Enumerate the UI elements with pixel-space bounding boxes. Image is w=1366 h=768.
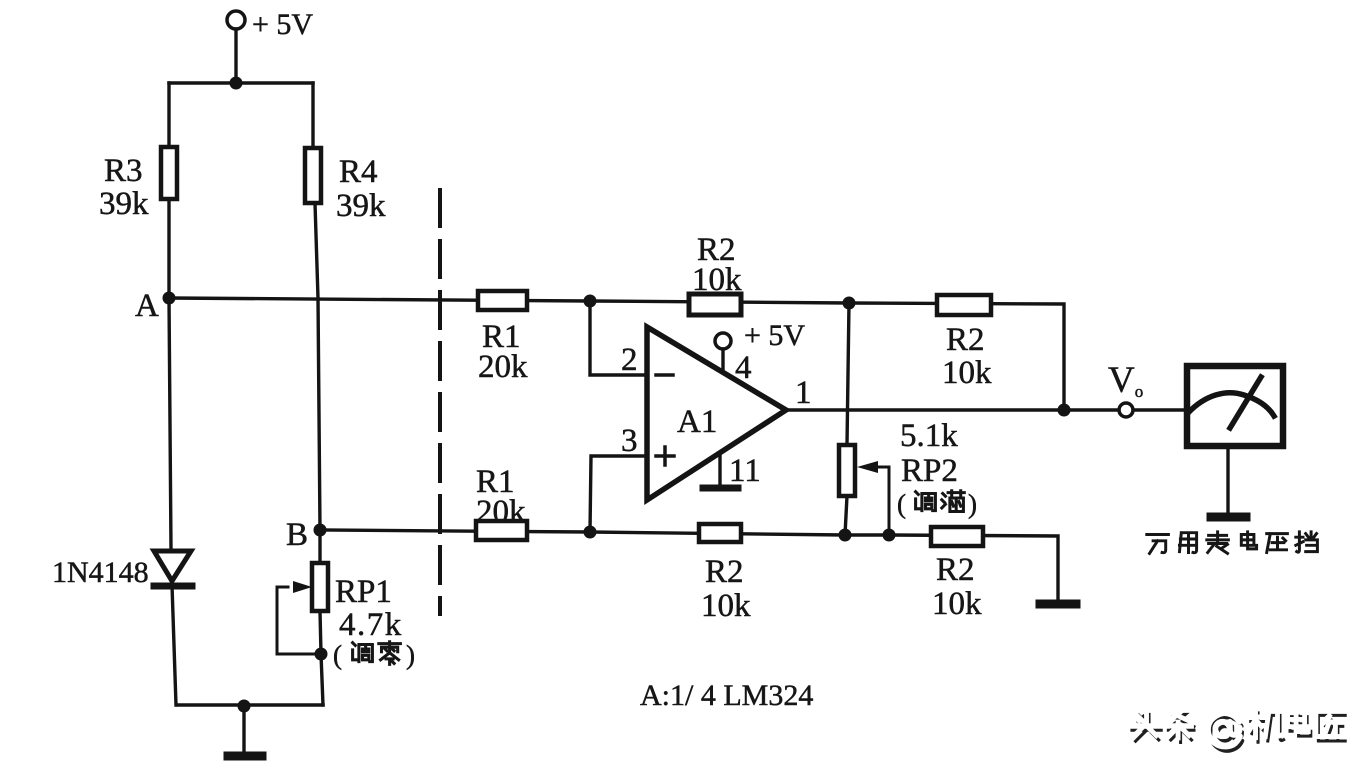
svg-text:1: 1	[795, 375, 812, 411]
Vo terminal	[1119, 403, 1133, 417]
svg-text:B: B	[286, 517, 308, 553]
op-amp minus sign	[656, 373, 673, 377]
junction output	[1058, 404, 1071, 417]
svg-text:(: (	[333, 640, 342, 670]
svg-text:+ 5V: + 5V	[744, 319, 805, 352]
potentiometer RP1	[312, 563, 328, 611]
watermark toutiao white layer	[1129, 707, 1342, 746]
resistor R3	[161, 147, 177, 199]
svg-text:A1: A1	[677, 404, 717, 440]
svg-text:4.7k: 4.7k	[339, 607, 403, 643]
wire node A rail	[169, 298, 1064, 410]
junction bottom ground	[238, 700, 251, 713]
label RP2 note (tiao man)	[897, 489, 977, 519]
RP2 wiper arrow	[857, 461, 889, 535]
wire to pin 3	[590, 456, 647, 532]
svg-text:R3: R3	[104, 153, 143, 189]
junction feedback top	[843, 297, 856, 310]
svg-text:): )	[406, 640, 415, 670]
svg-text:10k: 10k	[692, 262, 742, 298]
wire bottom rail	[177, 703, 323, 706]
svg-text:20k: 20k	[476, 494, 526, 530]
junction inverting node	[584, 295, 597, 308]
wire right vertical	[313, 83, 323, 705]
junction RP2 bottom	[839, 529, 852, 542]
junction RP2 wiper bottom	[883, 529, 896, 542]
op-amp pin 4 terminal	[715, 333, 731, 371]
svg-text:4: 4	[735, 350, 752, 386]
wire node B rail	[320, 530, 1058, 601]
dashed separator line	[438, 190, 442, 614]
svg-text:+ 5V: + 5V	[252, 8, 313, 41]
label RP1 note (tiao ling)	[333, 640, 415, 670]
svg-text:A: A	[135, 288, 159, 324]
svg-text:R4: R4	[339, 154, 378, 190]
svg-text:R2: R2	[705, 554, 744, 590]
label meter caption wan yong biao dian ya dang	[1147, 532, 1318, 554]
resistor R4	[305, 148, 321, 203]
diode 1N4148	[154, 551, 192, 586]
svg-text:R2: R2	[946, 322, 985, 358]
meter scale arc	[1188, 393, 1274, 416]
svg-text:(: (	[897, 489, 906, 519]
svg-text:10k: 10k	[932, 586, 982, 622]
junction top	[230, 77, 243, 90]
svg-text:): )	[968, 489, 977, 519]
svg-text:R2: R2	[936, 552, 975, 588]
node A	[163, 292, 176, 305]
svg-text:11: 11	[729, 453, 761, 489]
svg-text:1N4148: 1N4148	[52, 556, 149, 589]
junction RP1 bottom	[315, 648, 328, 661]
resistor R1 bottom	[476, 521, 527, 540]
svg-text:RP2: RP2	[901, 453, 958, 489]
op-amp A1	[647, 327, 786, 500]
ground bottom right	[1040, 600, 1076, 609]
svg-text:Vo: Vo	[1108, 360, 1143, 401]
svg-text:20k: 20k	[478, 349, 528, 385]
op-amp plus sign	[656, 447, 674, 465]
svg-text:2: 2	[621, 342, 638, 378]
wire left vertical	[169, 83, 176, 705]
meter box	[1187, 366, 1283, 446]
+5V supply terminal	[227, 11, 245, 83]
wire output	[786, 408, 1185, 411]
svg-text:RP1: RP1	[335, 574, 392, 610]
op-amp pin 11 ground	[703, 453, 738, 488]
meter ground	[1211, 447, 1246, 517]
resistor R2 bottom right	[931, 527, 983, 546]
svg-text:A:1/ 4 LM324: A:1/ 4 LM324	[640, 679, 813, 712]
svg-text:10k: 10k	[942, 355, 992, 391]
junction non-inverting node	[584, 526, 597, 539]
wire top rail	[169, 81, 313, 84]
svg-text:39k: 39k	[336, 188, 386, 224]
node B	[314, 524, 327, 537]
svg-text:39k: 39k	[99, 186, 149, 222]
meter needle	[1230, 377, 1261, 428]
potentiometer RP2	[839, 445, 855, 496]
RP1 wiper arrow	[277, 581, 321, 654]
ground bottom-left	[228, 706, 262, 756]
resistor R2 bottom	[699, 524, 741, 542]
resistor R2 top	[689, 294, 741, 315]
svg-text:5.1k: 5.1k	[900, 418, 958, 454]
svg-text:3: 3	[621, 423, 638, 459]
wire to pin 2	[590, 301, 647, 375]
watermark toutiao shadow layer	[1132, 712, 1345, 751]
resistor R2 right	[937, 295, 991, 315]
svg-text:10k: 10k	[701, 588, 751, 624]
resistor R1 top	[478, 291, 527, 310]
wire feedback vertical	[845, 303, 849, 535]
